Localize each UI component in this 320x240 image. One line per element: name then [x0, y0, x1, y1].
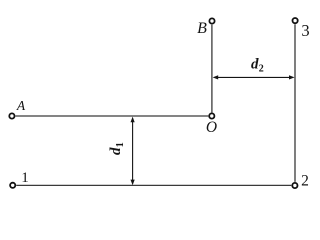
svg-text:2: 2 [301, 173, 309, 190]
node 1 (terminal circle) [10, 183, 15, 188]
dimension arrow d1 (between wire A-O and wire 1-2) [131, 117, 135, 186]
svg-text:2: 2 [259, 64, 264, 75]
wire 1-2 (horizontal) [16, 184, 291, 186]
node 3 (terminal circle) [293, 18, 298, 23]
node B (terminal circle) [209, 18, 214, 23]
svg-text:d: d [108, 147, 124, 155]
svg-text:B: B [197, 20, 207, 37]
svg-text:O: O [206, 119, 217, 136]
node 2 (terminal circle) [292, 183, 297, 188]
wire B-O (vertical) [211, 25, 213, 113]
svg-text:3: 3 [301, 21, 309, 40]
wire 3-2 (vertical) [294, 24, 296, 182]
svg-text:A: A [16, 98, 26, 113]
node O (junction circle) [209, 113, 214, 118]
value label d1 (rotated) [108, 142, 126, 155]
wire A-O (horizontal) [16, 115, 209, 117]
dimension arrow d2 (between wire B-O and wire 3-2) [213, 75, 295, 79]
svg-text:d: d [251, 56, 259, 72]
svg-text:1: 1 [115, 142, 126, 147]
value label d2 [251, 56, 264, 74]
node A (terminal circle) [9, 113, 14, 118]
svg-text:1: 1 [21, 170, 29, 186]
